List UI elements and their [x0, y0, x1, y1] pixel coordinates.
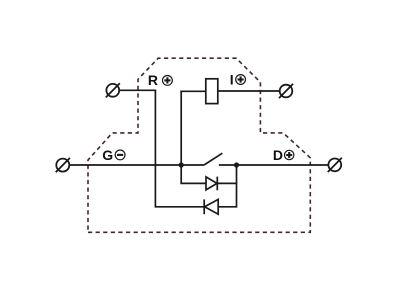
label G polarity minus: [115, 150, 125, 160]
junction node left (coil branch): [179, 162, 184, 167]
wire: coil-left vertical from coil wire down to upper diode row: [180, 91, 182, 184]
wire: upper diode row left segment: [180, 182, 206, 184]
svg-text:G: G: [102, 147, 113, 163]
wire: coil left lead: [180, 90, 205, 92]
relay coil: [206, 79, 218, 104]
wire: main D line from switch to terminal: [219, 164, 329, 166]
wire: left vertical from R down to lower diode row: [154, 90, 156, 207]
terminal D (circle with slash): [328, 158, 342, 172]
terminal R (circle with slash): [106, 83, 120, 97]
junction node right (diode branch): [234, 162, 239, 167]
diode D1 (pointing right, cathode bar right): [206, 177, 217, 191]
relay contact switch blade: [204, 153, 222, 165]
label I polarity plus: [236, 75, 246, 85]
dashed enclosure outline: [88, 58, 310, 232]
label R polarity plus: [163, 76, 173, 86]
svg-text:R: R: [148, 72, 158, 88]
wire: lower diode row right segment: [218, 206, 236, 208]
svg-text:D: D: [273, 147, 283, 163]
svg-text:I: I: [230, 71, 234, 87]
wire: coil right lead to I terminal: [218, 90, 280, 92]
wire: upper diode row right segment: [217, 182, 237, 184]
wire: right vertical from lower diode row up to D node: [236, 165, 238, 208]
terminal I (circle with slash): [279, 84, 293, 98]
wire: R terminal to left vertical: [119, 89, 156, 91]
terminal G (circle with slash): [56, 158, 70, 172]
wire: lower diode row left segment: [155, 206, 204, 208]
label D polarity plus: [285, 150, 294, 159]
wire: main G line from terminal to switch: [69, 164, 204, 166]
diode D2 (cathode bar left, pointing left): [204, 199, 218, 214]
